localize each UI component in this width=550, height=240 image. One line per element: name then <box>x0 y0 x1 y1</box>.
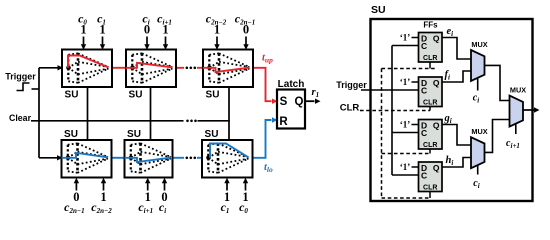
mux U1 body <box>471 50 485 81</box>
wire t_up to latch S <box>253 68 272 101</box>
trigger pulse symbol <box>17 83 30 91</box>
svg-text:0: 0 <box>144 22 150 36</box>
svg-text:1: 1 <box>214 22 220 36</box>
mux U3 body <box>471 137 485 168</box>
control input c_1 (bottom) <box>226 182 228 190</box>
mux U2 select stub <box>515 123 517 134</box>
wire trigger to lower SU chain <box>39 157 57 159</box>
svg-text:MUX: MUX <box>471 127 487 136</box>
control input c_i (bottom) <box>164 182 166 190</box>
svg-text:Q: Q <box>433 121 440 131</box>
D flip-flop FF e <box>419 33 443 63</box>
SU box top 1 <box>62 50 112 88</box>
SU box top 2 <box>126 50 176 88</box>
svg-text:C: C <box>421 41 427 51</box>
svg-text:C: C <box>421 171 427 181</box>
svg-text:SU: SU <box>127 129 141 140</box>
wire SU output arrow <box>523 109 534 111</box>
selected signal path <box>126 63 173 68</box>
wire trigger entry <box>361 89 419 91</box>
wire trigger branch FF g clock <box>392 132 419 134</box>
svg-text:1: 1 <box>145 190 151 204</box>
svg-text:C: C <box>421 86 427 96</box>
svg-text:1: 1 <box>162 22 168 36</box>
selected signal path <box>210 144 249 158</box>
control input c_2n−1 (bottom) <box>75 182 77 190</box>
dotted mux-tree (SU internals) <box>68 53 108 83</box>
svg-text:Q: Q <box>433 78 440 88</box>
svg-text:SU: SU <box>371 4 386 16</box>
D flip-flop FF f <box>419 77 443 107</box>
wire t_lo to latch R <box>253 120 272 158</box>
svg-text:FFs: FFs <box>423 21 438 30</box>
wire Clear bus <box>31 120 184 122</box>
wire column SU1 top-to-bottom <box>87 87 89 140</box>
wire t_lo chain blue <box>112 157 125 159</box>
dotted mux-tree (SU internals) <box>68 143 108 173</box>
svg-text:Trigger: Trigger <box>5 72 36 82</box>
junction dot (selected-path entry) <box>129 156 134 161</box>
SU box top 3 <box>203 50 253 88</box>
wire column SU3 top-to-bottom <box>228 87 230 140</box>
wire U1 output <box>485 65 510 100</box>
svg-text:CLR: CLR <box>423 99 437 106</box>
wire latch output r1 <box>305 100 315 102</box>
dotted mux-tree (SU internals) <box>209 53 249 83</box>
control input c_i (top) <box>146 37 148 46</box>
wire U3 output <box>485 120 510 153</box>
wire trigger distribution trunk <box>391 46 393 176</box>
junction dot (selected-path entry) <box>130 66 135 71</box>
D flip-flop FF h <box>419 162 443 192</box>
svg-text:CLR: CLR <box>423 142 437 149</box>
mux U2 body <box>510 96 524 127</box>
SU detail outer box <box>371 19 533 201</box>
svg-text:1: 1 <box>80 22 86 36</box>
wire h_i <box>442 158 471 168</box>
ellipsis top chain <box>186 67 189 70</box>
dotted mux-tree (SU internals) <box>132 53 172 83</box>
wire CLR dashed trunk <box>381 69 383 199</box>
svg-text:C: C <box>421 128 427 138</box>
svg-text:MUX: MUX <box>510 86 526 95</box>
svg-text:Q: Q <box>433 163 440 173</box>
svg-text:Q: Q <box>295 96 304 108</box>
control input c_2n−1 (top) <box>245 37 247 46</box>
ellipsis on Clear bus <box>186 120 189 123</box>
svg-text:SU: SU <box>129 90 143 101</box>
SU box bottom 1 <box>62 140 112 178</box>
wire trigger branch FF h clock <box>392 174 419 176</box>
svg-text:‘1’: ‘1’ <box>400 33 411 43</box>
selected signal path <box>62 153 109 158</box>
svg-text:R: R <box>279 116 288 128</box>
ellipsis bottom chain <box>186 157 189 160</box>
selected signal path <box>125 158 172 163</box>
wire g_i <box>442 125 471 146</box>
svg-text:0: 0 <box>73 190 79 204</box>
trigger stub to trunk <box>32 88 40 90</box>
wire CLR branch FF h <box>382 197 432 199</box>
dotted mux-tree (SU internals) <box>208 143 248 173</box>
wire trigger branch FF e clock <box>392 45 419 47</box>
control input c_0 (bottom) <box>245 182 247 190</box>
control input c_i+1 (top) <box>165 37 167 46</box>
svg-text:S: S <box>280 96 288 108</box>
selected signal path <box>203 68 250 73</box>
svg-text:MUX: MUX <box>471 40 487 49</box>
wire trigger vertical trunk <box>38 68 40 158</box>
svg-text:Latch: Latch <box>278 79 305 90</box>
svg-text:SU: SU <box>205 129 219 140</box>
svg-text:1: 1 <box>100 190 106 204</box>
mux U1 select stub <box>477 78 479 90</box>
svg-text:CLR: CLR <box>340 103 360 114</box>
svg-text:Clear: Clear <box>9 113 32 123</box>
junction dot (selected-path entry) <box>206 156 211 161</box>
svg-text:SU: SU <box>64 129 78 140</box>
mux U3 select stub <box>477 165 479 174</box>
selected signal path <box>68 56 109 68</box>
wire e_i <box>442 38 471 60</box>
wire CLR branch FF e <box>382 68 437 70</box>
svg-text:SU: SU <box>65 90 79 101</box>
wire CLR entry dashed <box>360 110 430 112</box>
svg-text:CLR: CLR <box>423 184 437 191</box>
svg-text:Q: Q <box>433 34 440 44</box>
svg-text:‘1’: ‘1’ <box>400 77 411 87</box>
svg-text:CLR: CLR <box>423 55 437 62</box>
control input c_0 (top) <box>83 37 85 46</box>
wire CLR branch FF g <box>382 153 431 155</box>
control input c_2n−2 (top) <box>216 37 218 46</box>
svg-text:0: 0 <box>243 22 249 36</box>
dotted mux-tree (SU internals) <box>131 143 171 173</box>
junction dot (selected-path entry) <box>207 66 212 71</box>
wire column SU2 top-to-bottom <box>150 87 152 140</box>
SU box bottom 3 <box>202 140 253 178</box>
junction dot (selected-path entry) <box>66 156 71 161</box>
svg-text:1: 1 <box>99 22 105 36</box>
control input c_2n−2 (bottom) <box>103 182 105 190</box>
svg-text:Trigger: Trigger <box>336 80 367 90</box>
svg-text:‘1’: ‘1’ <box>400 162 411 172</box>
junction dot (selected-path entry) <box>66 66 71 71</box>
CLR pin risers <box>429 62 431 69</box>
latch box <box>277 90 305 129</box>
wire trigger to upper SU chain <box>39 67 58 69</box>
D flip-flop FF g <box>419 120 443 150</box>
svg-text:‘1’: ‘1’ <box>400 120 411 130</box>
control input c_i+1 (bottom) <box>147 182 149 190</box>
control input c_1 (top) <box>102 37 104 46</box>
wire f_i <box>442 71 471 82</box>
wire t_up chain red <box>112 67 126 69</box>
SU box bottom 2 <box>125 140 173 178</box>
svg-text:SU: SU <box>206 90 220 101</box>
